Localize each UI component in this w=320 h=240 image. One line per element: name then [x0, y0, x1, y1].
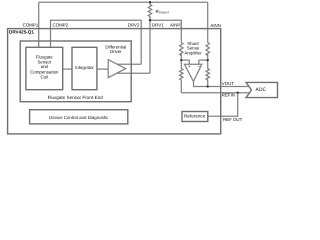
svg-text:Device Control and Diagnostic: Device Control and Diagnostic — [49, 115, 109, 120]
svg-text:DRV425-Q1: DRV425-Q1 — [9, 30, 34, 35]
svg-text:DRV2: DRV2 — [128, 22, 140, 27]
wire to left node — [180, 53, 182, 60]
reference box — [182, 112, 208, 122]
wire bump DRV1 to AINP — [150, 20, 181, 29]
op-amp U2 shunt sense amplifier — [184, 64, 201, 81]
junction dot rshunt-drv1 — [149, 19, 151, 21]
svg-text:AINP: AINP — [170, 22, 180, 27]
svg-text:Coil: Coil — [41, 75, 49, 80]
ADC block — [246, 82, 278, 97]
wire amp input stub plus — [188, 60, 190, 64]
resistor feedback right — [206, 60, 209, 86]
svg-text:Fluxgate Sensor Front-End: Fluxgate Sensor Front-End — [48, 95, 104, 100]
minus mark amp input — [198, 65, 200, 67]
svg-text:DRV1: DRV1 — [152, 22, 164, 27]
wire REFOUT to REFIN node — [208, 93, 238, 117]
device control box — [30, 110, 128, 124]
junction dot refin-refout — [237, 91, 239, 93]
junction dot rail-rshunt — [149, 1, 151, 3]
junction dot right node — [207, 59, 209, 61]
svg-text:REFIN: REFIN — [222, 93, 235, 98]
wire left node to plus stub — [181, 59, 189, 61]
wire amp input stub minus — [198, 60, 200, 64]
wire DRV1 down to driver apex output — [149, 20, 151, 73]
chip box DRV425-Q1 — [8, 29, 221, 134]
svg-text:COMP2: COMP2 — [53, 22, 69, 27]
resistor RSHUNT external — [148, 2, 151, 20]
svg-text:Amplifier: Amplifier — [184, 50, 202, 55]
wire COMP2 down into fluxgate box — [50, 29, 52, 48]
wire to right node — [207, 53, 209, 60]
resistor input right — [206, 43, 209, 56]
svg-text:AINN: AINN — [210, 23, 221, 28]
svg-text:ADC: ADC — [256, 87, 267, 93]
plus mark amp input — [188, 65, 190, 67]
wire integrator to driver — [97, 68, 108, 70]
svg-text:SHUNT: SHUNT — [159, 11, 170, 15]
svg-text:Integrator: Integrator — [75, 65, 94, 70]
wire AINP down to input resistor — [180, 20, 182, 42]
wire DRV2 down to driver upper output — [140, 29, 142, 65]
wire right node to minus stub — [199, 59, 208, 61]
svg-text:REF OUT: REF OUT — [223, 117, 243, 122]
wire top rail COMP1 to AINN — [39, 1, 208, 3]
wire amp output to VOUT — [194, 82, 250, 87]
junction dot left node — [180, 59, 182, 61]
svg-text:and: and — [41, 64, 49, 69]
wire bump COMP2 to DRV2 — [51, 20, 142, 29]
fluxgate front-end box — [20, 41, 131, 102]
resistor input left — [180, 43, 183, 56]
wire AINN down to input resistor — [207, 2, 209, 42]
wire REFIN line — [181, 92, 249, 94]
wire driver apex output — [117, 72, 150, 74]
wire COMP1 down into fluxgate box — [38, 2, 40, 47]
svg-text:Driver: Driver — [110, 49, 122, 54]
svg-text:VOUT: VOUT — [222, 81, 235, 86]
integrator box — [72, 47, 97, 89]
wire fluxgate to integrator — [63, 68, 72, 70]
resistor feedback left — [180, 60, 183, 93]
wire driver upper output — [117, 63, 141, 65]
fluxgate sensor box — [26, 47, 63, 89]
svg-text:COMP1: COMP1 — [23, 22, 39, 27]
op-amp U1 differential driver — [108, 60, 125, 78]
svg-text:Reference: Reference — [184, 113, 206, 118]
junction dot vout-feedback — [207, 85, 209, 87]
